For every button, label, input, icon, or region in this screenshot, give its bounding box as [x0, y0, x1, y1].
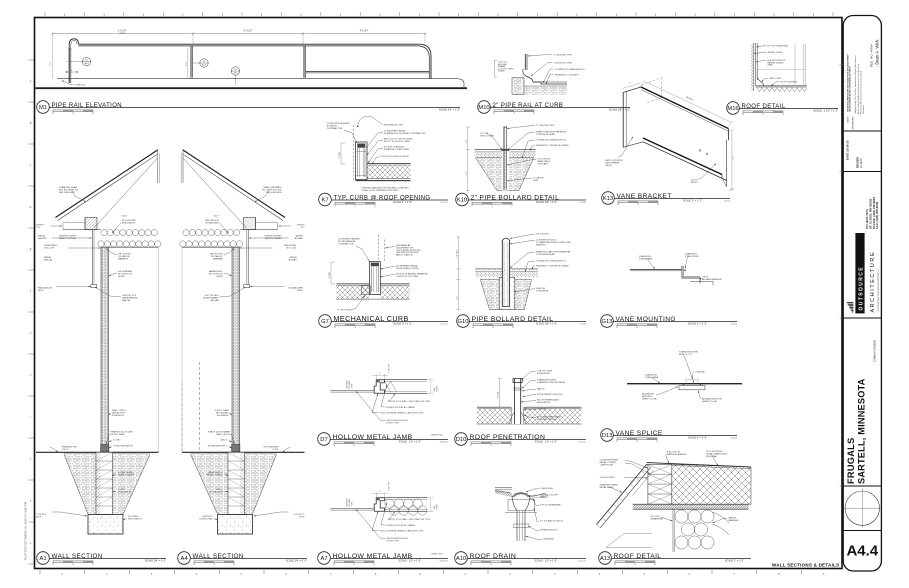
- ceiling line: [182, 246, 240, 248]
- svg-text:7 1/16": 7 1/16": [121, 216, 128, 218]
- svg-text:METALFASCIA: METALFASCIA: [44, 256, 52, 261]
- K10 grade strip: [475, 149, 536, 152]
- G7 roof bands: [336, 285, 369, 299]
- outsource architecture logo: [855, 233, 864, 313]
- jamb insulation: [385, 499, 394, 508]
- svg-text:SCALE 3" = 1'-0": SCALE 3" = 1'-0": [393, 201, 412, 204]
- G10 dim bracket: [457, 237, 459, 310]
- ridge cut lines: [182, 149, 184, 183]
- detail title G10: [457, 315, 470, 328]
- detail title A13: [599, 552, 612, 565]
- svg-text:VENTED SOFFITPANEL SYSTEM: VENTED SOFFITPANEL SYSTEM: [264, 236, 282, 240]
- svg-text:4'-6 3/4": 4'-6 3/4": [360, 30, 369, 33]
- curb: [57, 79, 464, 87]
- logo bars: [852, 311, 854, 314]
- svg-text:G7: G7: [321, 319, 329, 325]
- M10 pipe: [524, 54, 526, 70]
- svg-text:3'-6 3/4": 3'-6 3/4": [118, 30, 127, 33]
- A13 gyp sheathing: [672, 509, 674, 552]
- K10 dim bracket: [467, 127, 469, 191]
- north circle: [845, 491, 879, 525]
- svg-text:G: G: [30, 332, 32, 335]
- svg-text:G13: G13: [602, 319, 613, 325]
- svg-text:8" MIN: 8" MIN: [498, 392, 500, 398]
- svg-text:E.P.D.M. ROOFING SYSTEM: E.P.D.M. ROOFING SYSTEM: [381, 156, 409, 158]
- svg-text:4'-0": 4'-0": [466, 171, 468, 175]
- ground line (thick): [36, 87, 468, 89]
- detail title M16: [727, 102, 740, 115]
- svg-text:2'-6": 2'-6": [466, 139, 468, 143]
- svg-text:4": 4": [71, 70, 73, 72]
- jamb dim right: [430, 380, 432, 394]
- wall stud w/ insulation: [101, 247, 109, 452]
- A13 seam ticks: [647, 464, 651, 467]
- wall section A4 (mirrored): [180, 149, 305, 534]
- interior cut line: [158, 247, 160, 452]
- jamb dims top: [375, 374, 377, 379]
- svg-text:SCALE 3/4" = 1'-0": SCALE 3/4" = 1'-0": [145, 559, 166, 562]
- svg-text:CURB: CURB: [119, 33, 125, 35]
- G10 grade strip: [475, 269, 538, 271]
- svg-text:D10: D10: [456, 437, 467, 443]
- svg-text:: Dean A. Wick: : Dean A. Wick: [875, 39, 880, 67]
- ridge cut lines: [157, 149, 159, 183]
- svg-text:P.T. BLOCKING: P.T. BLOCKING: [337, 310, 352, 312]
- svg-text:A13: A13: [600, 556, 610, 562]
- A13 sloped standing seam roof: [597, 464, 648, 525]
- detail title M1: [37, 101, 50, 114]
- M10 pavement lines: [533, 81, 567, 83]
- svg-text:SCALE : 1/2" = 1'-0": SCALE : 1/2" = 1'-0": [535, 440, 558, 443]
- left edge registration ticks: [29, 59, 34, 61]
- A10 drain bowl: [512, 497, 517, 541]
- A13 metal deck band: [633, 504, 749, 509]
- M16 interior lines: [794, 44, 796, 86]
- G7 dim bracket: [330, 262, 332, 284]
- svg-text:11-16-10: 11-16-10: [860, 158, 863, 168]
- svg-text:M1: M1: [39, 105, 47, 111]
- backfill hatch left: [245, 454, 277, 514]
- svg-text:VENTED SOFFITPANEL SYSTEM: VENTED SOFFITPANEL SYSTEM: [59, 236, 77, 240]
- K7 mech unit leader arc: [358, 116, 372, 125]
- svg-text:A4: A4: [180, 556, 188, 562]
- detail title K10: [456, 193, 469, 206]
- G7 curb assembly: [370, 262, 381, 295]
- rail top pipe: [79, 44, 432, 78]
- svg-text:5/8" CROWN: 5/8" CROWN: [536, 234, 549, 236]
- svg-text:5 3/4" TYP: 5 3/4" TYP: [389, 481, 391, 491]
- detail title K13: [602, 192, 615, 205]
- svg-text:K13: K13: [603, 196, 613, 202]
- detail title M10: [478, 101, 491, 114]
- interior cut line: [181, 247, 183, 452]
- fascia board: [247, 230, 249, 285]
- svg-text:FAX: (320) 259-8236: FAX: (320) 259-8236: [875, 201, 879, 229]
- K13 web diagonals: [641, 87, 729, 129]
- svg-text:R-50 BLOWNINSULATION: R-50 BLOWNINSULATION: [122, 220, 136, 224]
- rail top dimension line: [53, 33, 425, 35]
- svg-text:4" CMU: 4" CMU: [113, 440, 121, 442]
- svg-text:3'-0": 3'-0": [457, 296, 459, 300]
- K7 typ curb at roof opening: [352, 125, 354, 181]
- svg-text:TYPE: TYPE: [352, 501, 354, 507]
- top edge registration ticks: [44, 12, 46, 15]
- A13 lower-left edge outline: [606, 547, 652, 549]
- svg-text:1'-4": 1'-4": [733, 156, 735, 160]
- D13 vane splice: [627, 383, 742, 385]
- svg-text:SCALE 3" = 1'-0": SCALE 3" = 1'-0": [683, 199, 702, 202]
- detail title A1: [37, 552, 50, 565]
- G10 concrete pit: [499, 277, 515, 309]
- jamb wall lines: [384, 497, 427, 499]
- svg-text:SCALE 3/8" = 1'-0": SCALE 3/8" = 1'-0": [536, 322, 557, 325]
- detail title D13: [601, 429, 614, 442]
- A4 interior dashed line: [199, 362, 201, 452]
- A10 sump box: [508, 500, 535, 511]
- G10 fill trapezoids: [480, 279, 499, 309]
- K7 base line: [356, 180, 411, 182]
- svg-text:K10: K10: [457, 198, 467, 204]
- sill plate: [232, 445, 240, 453]
- D10 pipe: [511, 390, 524, 424]
- svg-text:3'-6" (42"): 3'-6" (42"): [457, 249, 459, 258]
- svg-text:SARTELL, MINNESOTA: SARTELL, MINNESOTA: [856, 378, 866, 484]
- svg-text:O U T S O U R C E: O U T S O U R C E: [859, 267, 865, 311]
- M16 base and flashing: [756, 85, 807, 87]
- soffit line: [63, 229, 101, 231]
- M16 sawtooth deck: [757, 88, 807, 92]
- bottom edge registration ticks: [39, 570, 41, 575]
- G10 bollard pipe: [502, 240, 509, 307]
- blown insulation scallops: [101, 230, 107, 236]
- rail left post: [68, 48, 70, 83]
- svg-text:METALFASCIA: METALFASCIA: [38, 235, 46, 240]
- soffit line: [240, 229, 278, 231]
- svg-text:3'-6": 3'-6": [186, 61, 188, 66]
- svg-text:SCALE 3/8" = 1'-0": SCALE 3/8" = 1'-0": [609, 108, 630, 111]
- svg-text:SCALE 3/4" = 1'-0": SCALE 3/4" = 1'-0": [286, 559, 307, 562]
- svg-text:(2) 1/2"BOLTS: (2) 1/2"BOLTS: [691, 180, 699, 184]
- svg-text:SEE SCHEDULE FOR: SEE SCHEDULE FOR: [386, 420, 408, 422]
- detail title A7: [318, 552, 331, 565]
- rail mid rail right span: [306, 71, 430, 73]
- svg-text:DATE 10-29-10: DATE 10-29-10: [846, 140, 850, 160]
- svg-text:8" CMU BONDBEAM w/ REINF: 8" CMU BONDBEAM w/ REINF: [118, 472, 135, 476]
- svg-text:SCALE 3/4" = 1'-0": SCALE 3/4" = 1'-0": [439, 108, 460, 111]
- K10 fill trapezoid: [476, 158, 534, 191]
- svg-text:SCALE : 1/2" = 1'-0": SCALE : 1/2" = 1'-0": [535, 559, 558, 562]
- svg-text:SCALE 3" = 1'-0": SCALE 3" = 1'-0": [688, 322, 707, 325]
- svg-text:D13: D13: [602, 433, 613, 439]
- svg-text:4"=1'-0": 4"=1'-0": [440, 202, 448, 204]
- svg-text:METALFASCIA: METALFASCIA: [288, 256, 296, 261]
- grade line: [36, 451, 159, 453]
- svg-text:WALL SECTIONS & DETAILS: WALL SECTIONS & DETAILS: [772, 562, 839, 567]
- svg-text:K7: K7: [321, 198, 328, 204]
- svg-text:CONCRETE CURB: CONCRETE CURB: [554, 63, 573, 65]
- K13 left top dimension: [622, 83, 640, 89]
- K13 right dimension: [731, 130, 733, 189]
- A10 clamp dome: [512, 493, 530, 497]
- svg-text:A4.4: A4.4: [846, 543, 878, 560]
- K13 left flange: [622, 92, 624, 147]
- M10 curb block hatch: [512, 78, 524, 95]
- foundation wall: [228, 452, 245, 514]
- svg-text:D: D: [30, 206, 32, 209]
- detail title G7: [319, 315, 332, 328]
- svg-text:SCALE : 1 1/2" = 1'-0": SCALE : 1 1/2" = 1'-0": [813, 109, 838, 112]
- jamb frame profile: [374, 380, 384, 394]
- jamb dims top: [375, 492, 377, 497]
- svg-text:8" MIN: 8" MIN: [329, 271, 331, 278]
- grade line: [182, 451, 305, 453]
- svg-text:DOOR TYPE: DOOR TYPE: [386, 423, 399, 425]
- K10 pipe: [502, 151, 509, 191]
- 4in radius note: [62, 81, 73, 85]
- eave assembly: [244, 218, 256, 230]
- svg-text:REVISED: REVISED: [857, 157, 860, 168]
- svg-text:PLOTTED OCTOBER 29, 2010 AT 4:: PLOTTED OCTOBER 29, 2010 AT 4:00 PM: [24, 501, 28, 560]
- svg-text:8" MIN: 8" MIN: [339, 151, 341, 158]
- G13 vane mounting: [630, 269, 682, 271]
- svg-text:8" CMU BONDBEAM w/ REINF: 8" CMU BONDBEAM w/ REINF: [206, 472, 223, 476]
- eave assembly: [85, 218, 97, 230]
- A10 expansion joint: [514, 524, 529, 528]
- backfill hatch right: [113, 454, 151, 514]
- svg-text:4"=1'-0": 4"=1'-0": [578, 441, 586, 443]
- A10 sloped sump: [495, 489, 512, 497]
- fascia board: [91, 230, 93, 285]
- svg-text:TYPE: TYPE: [352, 383, 354, 389]
- svg-text:STAINLESSSTEEL VANE: STAINLESSSTEEL VANE: [639, 255, 653, 260]
- svg-text:5'-6 1/2": 5'-6 1/2": [244, 30, 253, 33]
- svg-text:FRUGALS: FRUGALS: [846, 437, 856, 484]
- A13 vapor barrier bumps: [675, 510, 688, 523]
- svg-text:SCALE 3" = 1'-0": SCALE 3" = 1'-0": [393, 322, 412, 325]
- svg-text:BUILT-UP P.T. WOOD CURBW/ 1/2": BUILT-UP P.T. WOOD CURBW/ 1/2" PLYWOOD C…: [384, 139, 413, 143]
- D10 dim bracket: [499, 379, 501, 408]
- svg-text:C: C: [30, 164, 32, 167]
- K7 dim bracket: [340, 143, 342, 164]
- A13 blocking column: [648, 464, 672, 504]
- svg-text:#14-05: #14-05: [579, 323, 587, 325]
- svg-text:SCALE 3/8" = 1'-0": SCALE 3/8" = 1'-0": [536, 201, 557, 204]
- svg-text:4" CMU: 4" CMU: [220, 440, 228, 442]
- K7 curb assembly: [356, 142, 368, 180]
- svg-text:M10: M10: [478, 105, 489, 111]
- svg-text:EPDM PREMOLDED BOOT: EPDM PREMOLDED BOOT: [537, 394, 564, 396]
- svg-text:ROOF DETAIL: ROOF DETAIL: [742, 104, 786, 110]
- D10 roof band: [477, 409, 582, 424]
- detail title A4: [178, 552, 191, 565]
- svg-text:5 3/4" TYP: 5 3/4" TYP: [389, 363, 391, 373]
- sill plate: [101, 445, 109, 453]
- ceiling line: [101, 246, 159, 248]
- K7 roof band: [367, 165, 411, 179]
- svg-text:REG. NO. 44794: REG. NO. 44794: [869, 44, 873, 67]
- M16 notes: [757, 46, 767, 47]
- svg-text:A R C H I T E C T U R E: A R C H I T E C T U R E: [870, 252, 876, 312]
- A13 rigid insulation crosshatch: [672, 464, 751, 504]
- svg-text:SCALE : 1/2" = 1'-0": SCALE : 1/2" = 1'-0": [399, 440, 422, 443]
- foundation wall: [96, 452, 113, 514]
- svg-text:SCALE : 1/2" = 1'-0": SCALE : 1/2" = 1'-0": [399, 559, 422, 562]
- detail title K7: [319, 193, 332, 206]
- svg-text:2" PIPE RAIL AT CURB: 2" PIPE RAIL AT CURB: [493, 103, 564, 109]
- svg-text:7 1/16": 7 1/16": [213, 216, 220, 218]
- svg-text:TYP. CURB @ ROOF OPENING: TYP. CURB @ ROOF OPENING: [334, 195, 431, 201]
- svg-text:R-50 BLOWNINSULATION: R-50 BLOWNINSULATION: [205, 220, 219, 224]
- svg-text:#14-05: #14-05: [579, 202, 587, 204]
- wall stud w/ insulation: [232, 247, 240, 452]
- footing: [218, 515, 253, 535]
- title block dividers: [843, 130, 881, 132]
- svg-text:A10: A10: [456, 556, 466, 562]
- svg-text:H: H: [30, 374, 32, 377]
- blown insulation scallops: [233, 230, 239, 236]
- svg-text:G10: G10: [458, 319, 469, 325]
- post dimension line: [187, 48, 189, 78]
- svg-text:SCALE 3" = 1'-0": SCALE 3" = 1'-0": [688, 436, 707, 439]
- detail title G13: [601, 315, 614, 328]
- svg-text:2x6 BLOCKING: 2x6 BLOCKING: [600, 477, 615, 479]
- A13 membrane top lines: [647, 463, 751, 467]
- backfill hatch left: [64, 454, 96, 514]
- svg-text:METALFASCIA: METALFASCIA: [294, 235, 302, 240]
- svg-text:4"=1'-0": 4"=1'-0": [578, 560, 586, 562]
- roof slope outer lines: [56, 150, 158, 218]
- K13 dashed bend lines: [641, 78, 662, 86]
- G7 mechanical curb: [377, 235, 379, 262]
- svg-text:PIPE RAIL ELEVATION: PIPE RAIL ELEVATION: [52, 103, 123, 109]
- detail title D7: [318, 433, 331, 446]
- detail title A10: [455, 552, 468, 565]
- jamb door leaf: [330, 390, 374, 392]
- svg-text:DOOR TYPE: DOOR TYPE: [386, 541, 399, 543]
- M16 siding zigzag: [751, 44, 753, 91]
- M10 right notes: [528, 55, 553, 57]
- svg-text:A1: A1: [39, 556, 46, 562]
- jamb door leaf: [330, 508, 374, 510]
- M10 curb profile: [523, 69, 567, 84]
- jamb frame profile: [374, 498, 384, 512]
- A10 roof layers left: [495, 487, 512, 489]
- svg-text:M16: M16: [727, 106, 738, 112]
- svg-text:3'-0": 3'-0": [50, 61, 52, 66]
- 4in dim ticks: [67, 71, 78, 73]
- rail tag circles: [82, 57, 90, 65]
- svg-text:STAINLESSSTEEL VANE: STAINLESSSTEEL VANE: [645, 374, 659, 379]
- wall section A1: [36, 149, 161, 534]
- svg-text:SCALE 3" = 1'-0": SCALE 3" = 1'-0": [725, 559, 744, 562]
- G7 blocking box: [361, 286, 370, 295]
- svg-text:A7: A7: [320, 556, 327, 562]
- backfill hatch right: [191, 454, 229, 514]
- jamb dim right: [430, 498, 432, 512]
- footing: [88, 515, 123, 535]
- roof slope outer lines: [183, 150, 285, 218]
- K13 top dimension: [645, 82, 732, 123]
- M16 wall lines: [753, 43, 755, 91]
- detail title D10: [455, 433, 468, 446]
- svg-text:4"=1'-0": 4"=1'-0": [440, 323, 448, 325]
- jamb wall lines: [384, 379, 427, 381]
- K13 right end: [728, 129, 730, 141]
- svg-text:SEE SCHEDULE FOR: SEE SCHEDULE FOR: [386, 538, 408, 540]
- rail posts: [190, 46, 192, 78]
- svg-text:D7: D7: [320, 437, 327, 443]
- title block outer rounded frame: [843, 16, 881, 572]
- svg-text:18 GA SHEET METALBY ROOFING CO: 18 GA SHEET METALBY ROOFING CONTR.: [396, 265, 419, 270]
